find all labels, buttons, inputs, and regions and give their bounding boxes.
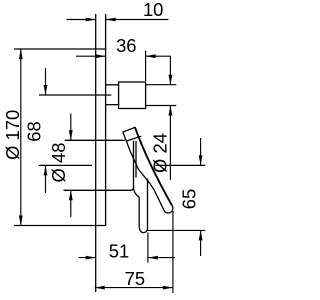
dim 51 right arrow shaft [148, 257, 175, 259]
knob neck top edge [106, 84, 119, 86]
knob axis line [39, 94, 111, 96]
dim 68 top arrowhead [44, 85, 48, 95]
dim 68 bottom arrowhead [44, 165, 48, 175]
dim 51 right arrowhead [148, 256, 158, 260]
dim 51 left arrow shaft [79, 257, 96, 259]
dim 24 bottom extension line [146, 105, 177, 107]
dim 51 right extension line [147, 233, 149, 263]
dim 36 left arrowhead [96, 54, 106, 58]
svg-text:68: 68 [24, 121, 45, 141]
svg-text:Ø 48: Ø 48 [48, 143, 69, 183]
svg-text:36: 36 [116, 35, 136, 56]
sleeve front face flowing into handle collar back edge [134, 141, 140, 228]
svg-text:10: 10 [143, 0, 163, 20]
dim 36 right arrowhead [146, 54, 156, 58]
lever cap bottom edge [126, 136, 141, 141]
wall plate top edge with extension line for dim 170 [14, 48, 106, 50]
cartridge stem line behind lever [135, 141, 137, 178]
wall plate back face line (also extension for dims 10/51/75) [95, 14, 97, 292]
dim 36 right extension line [145, 51, 147, 81]
svg-text:75: 75 [125, 268, 145, 289]
knob neck bottom edge [106, 104, 119, 106]
dim 170 top arrowhead [19, 49, 23, 59]
dim 24 bottom arrow shaft [169, 106, 171, 181]
dim 24 top extension line [146, 84, 177, 86]
dim 65 top arrow shaft [200, 138, 202, 165]
handle axis line left segment (extension for dim 68) [39, 164, 93, 166]
dim 10 left arrowhead [86, 18, 96, 22]
wall plate bottom edge with extension line for dim 170 [14, 225, 106, 227]
svg-text:Ø 170: Ø 170 [2, 110, 23, 160]
handle collar grip bottom U and front edge [139, 179, 147, 233]
dim 10 left arrow shaft [67, 19, 96, 21]
dim 10 right arrowhead [106, 18, 116, 22]
dim 36 right arrow shaft joined to dim 24 top arrow shaft [146, 56, 171, 84]
dim 170 dimension line [20, 49, 22, 226]
dim 10 right arrow shaft [106, 19, 169, 21]
wall plate front face line (also extension for dim 10) [105, 14, 107, 226]
dim 75 right arrowhead [163, 286, 173, 290]
dim 36 left arrow shaft [76, 55, 106, 57]
lever blade front edge (thicker highlight) [135, 127, 172, 205]
handle axis line right segment (extension for dim 65) [156, 164, 206, 166]
dim 65 top arrowhead [199, 155, 203, 165]
lever blade outline [123, 127, 173, 213]
svg-text:Ø 24: Ø 24 [150, 133, 171, 173]
svg-text:65: 65 [178, 189, 199, 209]
dim 48 top arrow shaft [70, 114, 72, 141]
dim 170 bottom arrowhead [19, 216, 23, 226]
dim 24 bottom arrowhead [169, 106, 173, 116]
dim 75 left arrowhead [95, 286, 105, 290]
dim 48 bottom arrow shaft [70, 190, 72, 217]
dim 68 bottom arrow shaft [45, 165, 47, 193]
dim 65 bottom extension line [146, 229, 205, 231]
dim 75 dimension line [95, 287, 173, 289]
sleeve bottom edge with extension line for dim 48 [64, 187, 134, 190]
dim 51 left arrowhead [86, 256, 96, 260]
dim 48 bottom arrowhead [69, 190, 73, 200]
dim 65 bottom arrow shaft [200, 230, 202, 256]
svg-text:51: 51 [109, 241, 129, 262]
knob body outline [119, 82, 146, 109]
dim 75 right extension line [172, 211, 174, 293]
dim 65 bottom arrowhead [199, 230, 203, 240]
dim 24 top arrowhead [169, 75, 173, 85]
dim 68 top arrow shaft [45, 68, 47, 95]
dim 48 top arrowhead [69, 130, 73, 140]
sleeve top edge with extension line for dim 48 [65, 139, 125, 141]
